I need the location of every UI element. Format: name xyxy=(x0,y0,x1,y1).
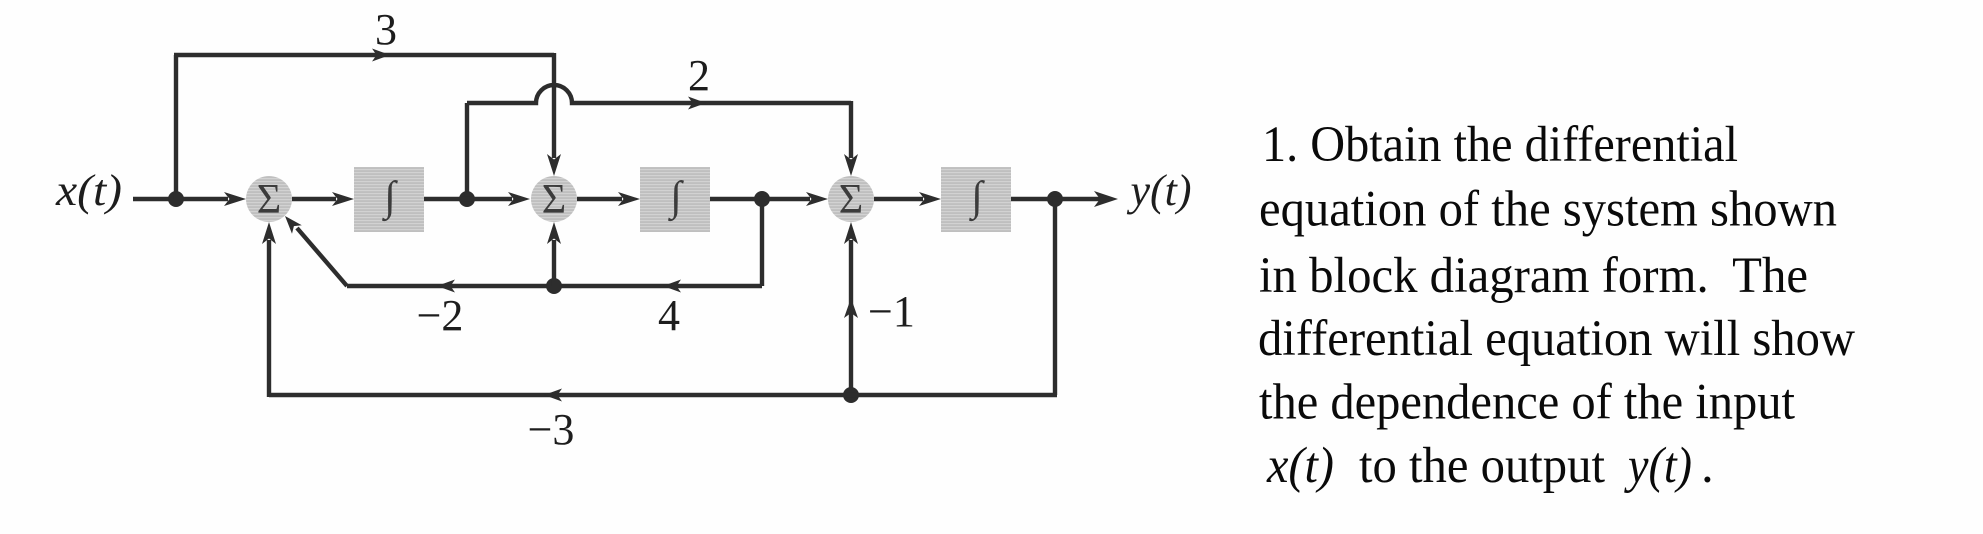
wire gain-2 drop into summer S3 xyxy=(844,101,858,176)
svg-text:y(t): y(t) xyxy=(1127,166,1192,215)
gain label 2 xyxy=(688,51,710,100)
wire diagonal into summer S1 xyxy=(285,216,347,286)
svg-text:differential equation will sho: differential equation will show xyxy=(1258,311,1855,367)
svg-text:x(t): x(t) xyxy=(55,166,122,215)
svg-text:4: 4 xyxy=(658,291,680,340)
wire S3 to integrator I3 xyxy=(874,192,941,206)
svg-text:−3: −3 xyxy=(528,405,575,454)
node F (bottom feedback junction) xyxy=(843,387,859,403)
node D (output branch) xyxy=(1047,191,1063,207)
svg-text:Σ: Σ xyxy=(257,177,281,223)
wire node C down xyxy=(760,199,764,286)
node C (after integrator I2) xyxy=(754,191,770,207)
svg-text:the dependence of the input: the dependence of the input xyxy=(1259,375,1795,431)
wire I1 to summer S2 xyxy=(424,192,530,206)
svg-text:−1: −1 xyxy=(868,287,915,336)
wire bottom feedback run y=395 xyxy=(269,389,1057,402)
summer S3 xyxy=(828,176,874,223)
wire S2 to integrator I2 xyxy=(577,192,640,206)
wire gain-2 run with hop over gain-3 drop xyxy=(467,85,851,110)
summer S1 xyxy=(246,176,292,223)
svg-text:.: . xyxy=(1701,438,1714,494)
wire I3 to output y(t) xyxy=(1011,191,1118,207)
gain label 3 xyxy=(375,5,397,54)
integrator I1 xyxy=(354,167,424,232)
wire gain-3 top run xyxy=(174,49,554,62)
integrator I3 xyxy=(941,167,1011,232)
svg-text:∫: ∫ xyxy=(381,174,398,222)
svg-text:y(t): y(t) xyxy=(1623,438,1692,494)
gain label -3 xyxy=(528,405,575,454)
wire bottom feedback up into summer S1 xyxy=(262,222,276,397)
wire I2 to summer S3 xyxy=(710,192,828,206)
node E (feedback junction under S2) xyxy=(546,278,562,294)
svg-text:to the output: to the output xyxy=(1359,438,1605,494)
gain label -2 xyxy=(417,291,464,340)
output label y(t) xyxy=(1127,166,1192,215)
svg-text:−2: −2 xyxy=(417,291,464,340)
input label x(t) xyxy=(55,166,122,215)
svg-text:equation of the system shown: equation of the system shown xyxy=(1259,182,1837,238)
wire feedback run y=286 xyxy=(347,280,762,293)
svg-text:1. Obtain the differential: 1. Obtain the differential xyxy=(1262,117,1738,173)
svg-text:x(t): x(t) xyxy=(1266,438,1334,494)
gain label 4 xyxy=(658,291,680,340)
gain label -1 xyxy=(868,287,915,336)
problem statement text xyxy=(1258,117,1855,494)
svg-text:Σ: Σ xyxy=(542,177,566,223)
wire node D down xyxy=(1053,199,1057,395)
svg-text:Σ: Σ xyxy=(839,177,863,223)
node B (after integrator I1) xyxy=(459,191,475,207)
svg-text:∫: ∫ xyxy=(667,174,684,222)
svg-text:in block diagram form. The: in block diagram form. The xyxy=(1259,248,1808,304)
svg-text:3: 3 xyxy=(375,5,397,54)
wire input to summer S1 xyxy=(133,192,246,206)
svg-text:∫: ∫ xyxy=(968,174,985,222)
wire gain -1 vertical into summer S3 xyxy=(844,222,858,395)
node A (input branch) xyxy=(168,191,184,207)
wire node B up to gain-2 run xyxy=(465,103,469,199)
integrator I2 xyxy=(640,167,710,232)
summer S2 xyxy=(531,176,577,223)
svg-text:2: 2 xyxy=(688,51,710,100)
wire gain-3 drop into summer S2 xyxy=(547,53,561,176)
wire S1 to integrator I1 xyxy=(292,192,354,206)
wire node A up xyxy=(174,55,178,199)
wire node E up into summer S2 xyxy=(547,222,561,286)
